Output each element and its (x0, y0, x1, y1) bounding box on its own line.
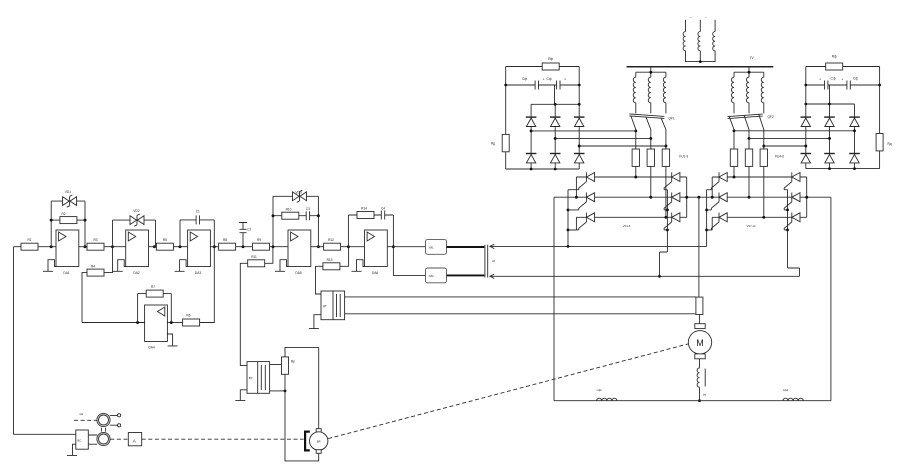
wire right gate bus to bus B (788, 190, 800, 277)
resistor R3 (87, 243, 104, 250)
capacitor Cf1 (535, 81, 538, 90)
winding secondary 2a (731, 77, 734, 103)
node phase2 (649, 196, 652, 199)
winding primary c (713, 32, 715, 51)
resistor R13 (323, 263, 340, 270)
svg-text:QF1: QF1 (669, 117, 675, 121)
svg-text:Rф: Rф (832, 55, 837, 59)
wire R12 to DA6 (341, 246, 365, 248)
ground DA6 (352, 260, 365, 272)
fuse FU5 (745, 149, 752, 166)
resistor R11 (248, 260, 265, 267)
wire R6 to DA4 (167, 322, 182, 324)
diode VD bot f (849, 154, 860, 163)
wire row2 cathode + motor line (554, 196, 831, 198)
resistor Rd right (876, 134, 883, 151)
svg-text:УИ1: УИ1 (429, 246, 435, 250)
diode VD top f (849, 117, 860, 126)
node caps left (804, 84, 807, 87)
node bus A / VS1-6 cathode group (567, 245, 570, 248)
box BV (247, 362, 270, 394)
svg-text:Cф: Cф (522, 77, 527, 81)
svg-text:R9: R9 (257, 238, 261, 242)
thyristor VS4 (664, 172, 680, 189)
wire DA6 output down to pulse former 2 (393, 247, 425, 276)
terminal b (118, 424, 121, 427)
svg-text:R12: R12 (328, 238, 334, 242)
svg-text:Rф: Rф (548, 57, 553, 61)
node C2 tap (242, 245, 245, 248)
node phase6 (762, 216, 765, 219)
resistor Rp (vertical) (282, 357, 289, 374)
wire primary phase leads (686, 20, 716, 32)
node rail motor (698, 399, 701, 402)
svg-text:R11: R11 (251, 255, 257, 259)
wire DA3 feedback loop (180, 220, 214, 247)
node bus B / VS1-6 right group (658, 275, 661, 278)
wire R8 to R9 (236, 246, 253, 248)
svg-text:R8: R8 (223, 238, 227, 242)
winding secondary 2b (746, 77, 749, 103)
svg-text:Rд: Rд (491, 142, 495, 146)
svg-text:ВС: ВС (78, 439, 82, 443)
box current sensor (321, 291, 345, 320)
capacitor C4 (381, 211, 384, 220)
node v2/row2 (575, 196, 578, 199)
wire DA1 feedback loop verticals (51, 201, 85, 247)
thyristor VS7 (711, 172, 727, 189)
thyristor VS1 (579, 172, 595, 189)
svg-text:Cф: Cф (831, 77, 836, 81)
capacitor Cf3 (825, 81, 828, 90)
diode VD bot d (801, 154, 812, 163)
winding secondary 1a (633, 77, 636, 103)
wire breaker to fuses (734, 130, 764, 218)
node R2 left (50, 219, 53, 222)
wire right anode bus (686, 177, 688, 217)
selsyn upper circle (97, 413, 110, 426)
wire v2 stair row1 (711, 177, 713, 197)
resistor R7 (146, 290, 163, 297)
diode VD top d (801, 117, 812, 126)
svg-text:DA4: DA4 (148, 346, 154, 350)
node DA3 input (179, 245, 182, 248)
wire DA2 to R5 (149, 246, 157, 248)
wire DA6 feedback loop (348, 215, 393, 247)
wire DA3 to R8 (210, 246, 218, 248)
svg-text:VS7-12: VS7-12 (747, 224, 756, 228)
wire snubber taps left (531, 131, 666, 146)
wire breaker to fuses (636, 130, 666, 218)
op-amp DA2 (126, 230, 149, 267)
wire caps row left (506, 85, 580, 104)
ground BC (67, 444, 77, 455)
thyristor VS9 (711, 213, 727, 230)
op-amp DA1 (56, 230, 79, 267)
node tap b (554, 137, 557, 140)
resistor Rf right (826, 63, 843, 70)
wire Rp bottom to BR lower brush (285, 374, 319, 461)
thyristor VS6 (664, 213, 680, 230)
wire DA6 to pulse former 1 (387, 246, 425, 248)
node caps left (504, 84, 507, 87)
wire R11 left down to BV box (240, 263, 247, 365)
node R2 right (84, 219, 87, 222)
wire row3 phase line (712, 216, 807, 218)
tach BR circle (310, 432, 328, 450)
transformer core (627, 66, 774, 68)
wire left block frame (506, 67, 580, 170)
node snubber tap 2c (762, 145, 765, 148)
svg-text:QF2: QF2 (768, 115, 774, 119)
wire thick gate line 2 (447, 274, 485, 276)
op-amp DA6 (365, 230, 388, 267)
svg-text:C4: C4 (381, 206, 385, 210)
node tap c (578, 145, 581, 148)
op-amp DA3 (188, 230, 211, 267)
wire secondary 1 to breaker (636, 103, 666, 114)
node DA6 output (392, 245, 395, 248)
winding secondary 1c (663, 77, 666, 103)
svg-text:+: + (819, 77, 821, 81)
bracket BR (305, 432, 310, 451)
node tap f (853, 129, 856, 132)
capacitor C2 to rail (239, 223, 247, 247)
winding primary a (683, 32, 685, 51)
node caps right (878, 84, 881, 87)
isolation barrier (485, 245, 488, 278)
wire shunt sense line upper (345, 296, 696, 298)
wire row1 phase line (576, 176, 686, 178)
node snubber tap 1c (664, 145, 667, 148)
node DA1 input (50, 245, 53, 248)
ground BV (235, 390, 247, 401)
dashed drive input (74, 419, 97, 421)
node DA5 output (317, 245, 320, 248)
svg-text:R2: R2 (61, 212, 65, 216)
wire snubber taps right (734, 131, 855, 146)
wire row1 phase line (712, 176, 807, 178)
node DA4 right (170, 321, 173, 324)
wire caps row right (806, 85, 880, 104)
svg-text:VD3: VD3 (295, 190, 301, 194)
svg-text:Lф2: Lф2 (783, 388, 789, 392)
node snubber tap 1b (649, 137, 652, 140)
dashed link selsyn to A (110, 438, 128, 440)
wire gate links left (707, 190, 712, 230)
ground DA4 (167, 334, 177, 346)
thyristor VS5 (664, 193, 680, 210)
wire BC to selsyn (88, 435, 97, 444)
node gate bus 3 (786, 228, 789, 231)
svg-text:BR: BR (317, 440, 321, 444)
svg-text:VS1-6: VS1-6 (623, 224, 631, 228)
resistor R2 (60, 217, 77, 224)
ground DA3 (175, 260, 188, 272)
svg-text:R13: R13 (327, 258, 333, 262)
node phase4 (733, 176, 736, 179)
wire R1 to DA1 (38, 246, 56, 248)
node phase1 (634, 176, 637, 179)
svg-text:+: + (564, 77, 566, 81)
wire brush to Lm (699, 359, 701, 368)
node DA4 output (136, 321, 139, 324)
wire v1 cathode bus (567, 190, 569, 247)
svg-text:Rр: Rр (291, 360, 295, 364)
thyristor VS12 (784, 213, 800, 230)
node anode bus row2 (805, 196, 808, 199)
node bottom rail a (530, 168, 533, 171)
wire primary neutral (686, 51, 716, 62)
svg-text:~: ~ (705, 16, 707, 20)
wire gate links left (568, 190, 579, 230)
wire Rp top to BR tach line (285, 347, 319, 428)
brush top (695, 324, 705, 329)
svg-text:R14: R14 (361, 207, 367, 211)
node phase3 (664, 216, 667, 219)
wire diode top rail right (806, 104, 855, 169)
box pulse former 1 (426, 240, 447, 255)
node top rail left (804, 103, 807, 106)
svg-text:TV: TV (750, 56, 755, 60)
svg-text:A: A (133, 439, 136, 444)
wire row3 step (707, 217, 713, 230)
thyristor VS11 (784, 193, 800, 210)
arrow gate bus A (490, 244, 494, 248)
wire DA5 to R12 (311, 246, 324, 248)
resistor R5 (156, 243, 173, 250)
wire outer left vertical (553, 197, 555, 401)
diode VD bot e (824, 154, 835, 163)
svg-text:FU1-3: FU1-3 (679, 155, 688, 159)
op-amp DA4 (mirrored) (145, 305, 168, 342)
wire R3 to DA2 (104, 246, 126, 248)
shunt resistor RS (696, 297, 703, 314)
motor M (688, 331, 711, 354)
wire bottom rail (554, 400, 831, 402)
wire bus A to VS7-12 left group (491, 245, 707, 247)
node DA6 input (347, 245, 350, 248)
wire BV lower output (270, 390, 285, 392)
dashed shaft line BR to M (328, 344, 688, 439)
wire R11 right to DA5 input (265, 247, 273, 264)
terminal a (118, 414, 121, 417)
svg-text:VD1: VD1 (65, 190, 71, 194)
diode pair VD3 (293, 190, 307, 202)
svg-text:DA1: DA1 (63, 271, 69, 275)
svg-text:DA3: DA3 (195, 271, 201, 275)
svg-text:Cф: Cф (853, 77, 858, 81)
node caps right (578, 84, 581, 87)
wire Lm to rail (699, 387, 701, 401)
svg-text:M: M (696, 338, 704, 348)
svg-text:R1: R1 (27, 238, 31, 242)
svg-text:~: ~ (690, 16, 692, 20)
box BC (76, 430, 89, 449)
thyristor VS8 (711, 193, 727, 210)
svg-text:C2: C2 (247, 227, 251, 231)
wire row3 step (568, 217, 576, 230)
resistor R6 (183, 319, 200, 326)
wire right anode bus (806, 177, 808, 217)
wire shunt to brush (698, 315, 700, 324)
wire right block frame (806, 67, 880, 169)
inductor Lf2 (783, 398, 803, 401)
node top rail right (578, 103, 581, 106)
diode VD bot a (526, 154, 537, 163)
wire R9 to DA5 (270, 246, 289, 248)
node v1 gate2 (705, 208, 708, 211)
winding secondary 1b (648, 77, 651, 103)
node DA3 output (213, 245, 216, 248)
shaft coupling (101, 428, 105, 432)
diode VD bot b (550, 154, 561, 163)
wire selsyn terminals (110, 415, 118, 425)
svg-text:DA6: DA6 (372, 271, 378, 275)
svg-text:Ов: Ов (80, 412, 84, 416)
capacitor C1 (196, 215, 199, 224)
winding secondary 2c (761, 77, 764, 103)
resistor R10 (282, 212, 299, 219)
brush BR top (316, 429, 321, 433)
node DA2 input (111, 245, 114, 248)
wire secondary 2 to breaker (734, 103, 764, 114)
svg-text:Lф1: Lф1 (597, 388, 603, 392)
winding primary b (698, 32, 700, 51)
thyristor VS10 (784, 172, 800, 189)
node snubber tap 2a (733, 129, 736, 132)
svg-text:R7: R7 (151, 285, 155, 289)
resistor R8 (219, 243, 236, 250)
wire gate links right (784, 190, 787, 230)
node Rp bottom (284, 390, 287, 393)
inductor Lf1 (597, 398, 617, 401)
node DA5 input (272, 245, 275, 248)
selsyn lower circle (97, 432, 110, 445)
svg-text:+: + (841, 77, 843, 81)
wire right gate bus to bus B (660, 190, 668, 277)
svg-text:C3: C3 (306, 207, 310, 211)
node bottom rail e (828, 167, 831, 170)
fuse FU4 (730, 149, 737, 166)
wire R5 to DA3 (173, 246, 187, 248)
ground DA5 (275, 260, 288, 272)
node gate bus 3 (666, 228, 669, 231)
brush BR bottom (316, 450, 321, 454)
node primary star (699, 60, 702, 63)
node gate bus 2 (786, 208, 789, 211)
svg-text:Lм: Lм (703, 393, 706, 397)
capacitor Cf4 (847, 81, 850, 90)
wire bus B to VS7-12 right group (491, 275, 800, 277)
node snubber tap 2b (748, 137, 751, 140)
wire tap from DA3 output down to R6 (200, 247, 215, 323)
node secondary 1 star (649, 71, 652, 74)
wire secondary 2 star (734, 67, 764, 77)
diode VD top c (574, 117, 585, 126)
capacitor C3 (306, 211, 309, 220)
wire DA4 output to R4 branch (82, 273, 145, 323)
wire v2 stair row1 (575, 177, 577, 197)
wire v1 cathode bus (706, 190, 708, 247)
box pulse former 2 (426, 268, 447, 283)
ground DA1 (43, 260, 56, 272)
svg-text:R3: R3 (93, 238, 97, 242)
svg-text:R10: R10 (286, 207, 292, 211)
thyristor VS3 (579, 213, 595, 230)
svg-text:VD2: VD2 (133, 209, 139, 213)
capacitor Cf2 (557, 81, 560, 90)
resistor R12 (324, 243, 341, 250)
node v2/row2 (711, 196, 714, 199)
node DA1 output (84, 245, 87, 248)
wire R7 feedback loop (138, 294, 172, 323)
svg-text:C1: C1 (196, 209, 200, 213)
resistor R14 (357, 212, 374, 219)
wire diode top rail left (531, 104, 579, 169)
ground current sensor (309, 315, 321, 329)
wire DA1 to R3 (79, 246, 87, 248)
svg-text:R4: R4 (91, 264, 95, 268)
diode VD top b (550, 117, 561, 126)
node secondary 2 star (748, 71, 751, 74)
node gate bus 2 (666, 208, 669, 211)
node top rail mid (554, 103, 557, 106)
wire DA2 feedback loop (113, 220, 156, 247)
node top rail mid (828, 103, 831, 106)
svg-text:УИ2: УИ2 (429, 274, 435, 278)
node snubber tap 1a (634, 129, 637, 132)
ground DA2 (113, 260, 126, 272)
wire R13 left down to current sensor box (316, 266, 323, 294)
svg-text:ВУ: ВУ (249, 376, 253, 380)
fuse FU6 (760, 149, 767, 166)
node tap a (530, 129, 533, 132)
svg-text:Rд: Rд (888, 142, 892, 146)
svg-text:об: об (492, 259, 495, 263)
node v1 row3 (705, 228, 708, 231)
node bottom rail b (554, 168, 557, 171)
node tap d (804, 145, 807, 148)
wire outer right vertical (830, 197, 832, 401)
svg-text:FU4-6: FU4-6 (775, 155, 784, 159)
brush bottom (695, 354, 705, 359)
wire DA5 feedback loop (VD3 top + RC branch) (273, 196, 318, 246)
diode VD bot c (574, 154, 585, 163)
svg-text:DA2: DA2 (133, 271, 139, 275)
svg-text:+: + (543, 77, 545, 81)
op-amp DA5 (288, 230, 311, 267)
wire shunt sense line lower (345, 313, 696, 315)
node motor tap (697, 196, 700, 199)
diode pair VD2 (130, 214, 144, 226)
node bottom rail f (853, 167, 856, 170)
wire thick gate line 1 (447, 246, 485, 248)
svg-text:DA5: DA5 (295, 271, 301, 275)
fuse FU1 (632, 149, 639, 166)
diode VD top e (824, 117, 835, 126)
svg-text:R6: R6 (186, 313, 190, 317)
dashed link A to BR (142, 438, 304, 440)
svg-text:R5: R5 (163, 238, 167, 242)
wire R13 right up to DA6 input (340, 247, 349, 267)
svg-text:Cф: Cф (547, 77, 552, 81)
node v1 gate2 (567, 208, 570, 211)
wire BV upper output to Rp (270, 364, 282, 366)
thyristor VS2 (579, 193, 595, 210)
node DA2 output (153, 245, 156, 248)
node phase5 (748, 196, 751, 199)
